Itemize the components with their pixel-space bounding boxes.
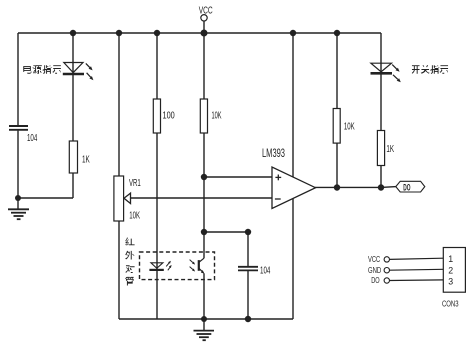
svg-text:1: 1 <box>448 254 453 264</box>
svg-text:100: 100 <box>163 110 176 121</box>
svg-text:1K: 1K <box>82 155 90 166</box>
svg-text:2: 2 <box>448 265 453 275</box>
svg-text:LM393: LM393 <box>262 148 285 160</box>
svg-text:10K: 10K <box>129 211 140 222</box>
svg-text:VR1: VR1 <box>129 178 141 189</box>
svg-text:10K: 10K <box>212 110 222 121</box>
svg-text:VCC: VCC <box>199 5 213 16</box>
svg-text:1K: 1K <box>386 144 394 155</box>
svg-text:VCC: VCC <box>368 255 380 264</box>
svg-text:DO: DO <box>403 183 410 193</box>
svg-text:104: 104 <box>260 265 271 276</box>
svg-text:104: 104 <box>27 133 38 144</box>
svg-text:GND: GND <box>368 266 381 275</box>
svg-text:DO: DO <box>371 276 379 285</box>
svg-text:10K: 10K <box>344 120 355 132</box>
svg-text:3: 3 <box>448 277 453 287</box>
svg-text:CON3: CON3 <box>442 298 459 308</box>
